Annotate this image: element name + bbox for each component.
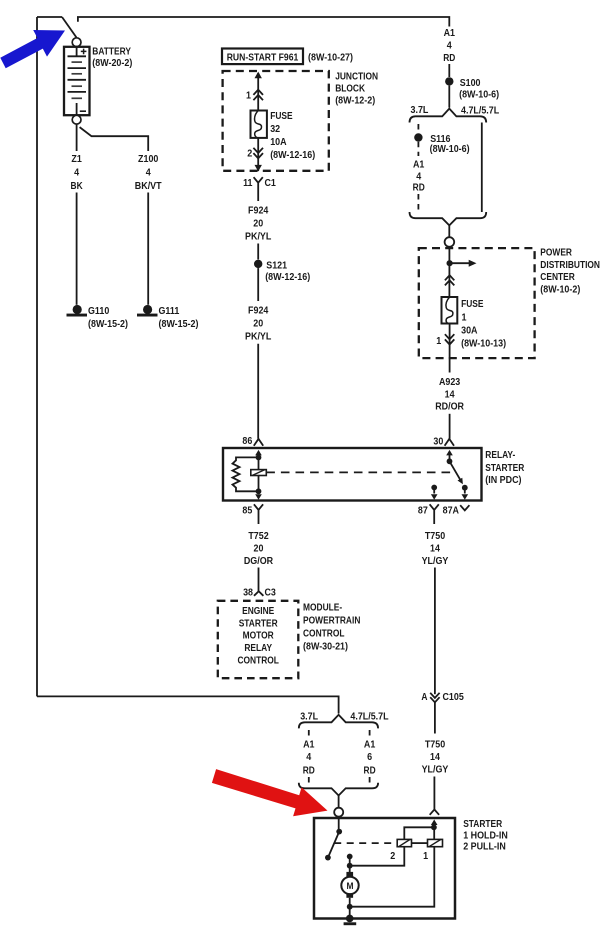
svg-text:DG/OR: DG/OR [244,555,274,567]
relay resistor branch [233,457,259,491]
relay switch blade arrowhead [458,478,463,485]
label 4.7L/5.7L top split [461,105,500,117]
label wire F924 20 PK/YL lower [245,305,272,343]
fuse F1 body [442,297,458,324]
svg-text:4.7L/5.7L: 4.7L/5.7L [461,105,500,117]
svg-text:11: 11 [243,177,253,189]
wire Z1 from battery negative [76,124,78,151]
svg-text:RD: RD [413,182,425,194]
svg-text:4: 4 [447,40,452,52]
wire C1 to F924 label [257,195,259,202]
starter box [314,818,455,919]
engine split brace upper [410,109,487,123]
engine merge brace upper [410,212,487,225]
fuse F32 body [251,111,267,138]
label wire F924 20 PK/YL upper [245,205,272,243]
junction block dashed box [223,71,329,171]
svg-text:F924: F924 [248,305,268,317]
svg-text:A1: A1 [303,739,315,751]
wire top-left horizontal from left vertical to battery diagonal [37,16,62,18]
starter merge brace [299,783,378,796]
svg-text:20: 20 [254,542,264,554]
label connector C1 [265,177,277,189]
svg-text:(8W-30-21): (8W-30-21) [303,640,348,652]
label pin 86 [242,435,252,447]
svg-text:FUSE: FUSE [461,298,483,310]
pin 1 label PDC [436,335,441,347]
relay switch feed wire [449,452,451,462]
wire pin 87 to T750 label [433,518,435,525]
svg-text:A: A [421,691,427,703]
svg-text:(8W-12-16): (8W-12-16) [265,271,310,283]
arrowhead down at junction block bottom border [255,165,262,172]
PDC double chevron connector up [445,275,454,285]
svg-text:1: 1 [436,335,441,347]
pin 87A chevron symbol [460,505,469,510]
pin 1 double chevron connector [253,90,263,101]
battery label [92,45,132,69]
starter solenoid feed male connector symbol [430,810,439,815]
svg-text:Z100: Z100 [138,153,158,165]
label fuse 1 30A [461,298,506,349]
svg-text:(8W-10-6): (8W-10-6) [430,143,470,155]
wire 3.7L dashed branch bottom lower [308,777,310,783]
wire pin 85 to T752 label [258,518,260,525]
connector C1 pin 11 fork symbol [254,177,263,194]
PDC pin 1 double chevron connector down [445,334,454,344]
svg-text:4: 4 [146,166,151,178]
battery plate long 2 [68,67,87,69]
battery plate long 3 [68,79,87,81]
starter feed connector circle [334,808,343,817]
pin 2 double chevron connector [253,148,263,159]
label pin 85 [242,505,252,517]
ground G111 symbol [137,305,158,317]
wire T750 lower to starter feed [433,777,435,810]
svg-text:S100: S100 [460,77,481,89]
svg-text:(8W-10-2): (8W-10-2) [540,284,580,296]
svg-text:(8W-15-2): (8W-15-2) [88,318,128,330]
svg-text:RD/OR: RD/OR [435,400,464,412]
starter ground junction dot on case [346,915,354,923]
relay switch blade [450,461,462,481]
wire F924 upper to splice S121 [257,244,259,260]
svg-text:RUN-START F961: RUN-START F961 [227,51,299,63]
label connector C3 [265,587,277,599]
svg-text:4.7L/5.7L: 4.7L/5.7L [350,711,389,723]
fuse F1 element curve [446,297,453,324]
PDC internal bus arrow right [450,260,477,267]
wire coil 2 return to motor branch [350,847,405,866]
svg-text:(8W-10-13): (8W-10-13) [461,338,506,350]
svg-text:(8W-10-27): (8W-10-27) [308,51,353,63]
label wire A1 4 RD top [443,27,455,64]
battery plate short 1 [72,61,83,63]
svg-text:2: 2 [390,850,395,862]
svg-text:FUSE: FUSE [270,110,292,122]
svg-text:ENGINE: ENGINE [242,605,274,617]
svg-text:87A: 87A [443,505,460,517]
wire top horizontal feed to right branch [78,17,449,27]
svg-text:STARTER: STARTER [463,818,502,830]
hold-in coil 1 box [428,839,443,846]
label pin 87A [443,505,460,517]
relay coil box [251,470,266,476]
svg-text:RELAY-: RELAY- [485,449,515,461]
starter solenoid feed wire into box [433,822,435,839]
PDC internal junction dot [447,260,453,266]
run-start F961 label box [222,49,303,65]
label fuse 32 10A [270,110,315,161]
svg-text:A923: A923 [439,376,460,388]
starter case ground bar [344,922,357,925]
label coil 1 [423,850,428,862]
starter motor top terminal [346,872,353,877]
svg-text:3.7L: 3.7L [411,104,429,116]
red callout arrow pointing at starter connector [212,769,328,816]
wire splice S121 to F924 label lower [257,268,259,301]
label wire A923 14 RD/OR [435,376,464,412]
svg-text:A1: A1 [413,159,425,171]
starter solenoid feed junction dot [431,824,437,830]
svg-text:14: 14 [430,751,440,763]
starter split brace [299,715,378,729]
starter dashed control line [334,842,397,844]
splice S121 [254,260,262,268]
wire 3.7L dashed lower segment [417,194,419,212]
wire 3.7L dashed branch upper segment [417,124,419,133]
svg-text:BK: BK [71,180,83,192]
svg-text:C105: C105 [443,691,464,703]
relay coil top junction dot [256,455,262,461]
svg-text:BK/VT: BK/VT [135,180,162,192]
starter motor M1 [341,877,358,894]
svg-text:RELAY: RELAY [244,642,272,654]
svg-text:M: M [347,881,354,892]
wire 4.7L dashed branch bottom lower [369,777,371,783]
svg-text:1: 1 [246,90,251,102]
svg-text:(8W-20-2): (8W-20-2) [92,57,132,69]
label wire A1 4 RD bottom branch [303,739,315,777]
battery minus sign [80,110,86,112]
svg-text:30: 30 [433,436,443,448]
label starter hold-in pull-in [463,818,508,853]
svg-text:RD: RD [364,764,376,776]
arrowhead up at relay pin 30 [446,450,453,456]
label (8W-10-27) [308,51,353,63]
svg-text:STARTER: STARTER [239,617,278,629]
label wire Z100 4 BK/VT [135,153,162,192]
wire diagonal into battery positive terminal [62,17,76,37]
wire T750 to connector C105 [434,568,436,695]
wire C105 to T750 lower label [434,702,436,733]
svg-text:PK/YL: PK/YL [245,331,272,343]
wire motor to ground [349,898,351,919]
relay contact 87 dot [431,485,437,491]
svg-text:A1: A1 [364,739,376,751]
pin 30 male connector symbol [445,439,454,446]
relay contact 87A dot [462,485,468,491]
svg-text:POWERTRAIN: POWERTRAIN [303,614,360,626]
label 3.7L bottom split [300,711,318,723]
wire T752 to connector C3 [258,568,260,592]
battery plate short 2 [72,73,83,75]
svg-text:RD: RD [443,52,455,64]
label splice S116 [430,133,470,155]
pin 86 male connector symbol [254,439,263,446]
svg-text:PK/YL: PK/YL [245,231,272,243]
pin 85 female fork symbol [254,504,263,517]
label relay-starter [485,449,524,486]
svg-text:(8W-12-2): (8W-12-2) [335,94,375,106]
pin 87 female fork symbol [430,504,439,517]
ground G110 symbol [67,305,88,317]
label pin A [421,691,427,703]
svg-text:32: 32 [270,123,280,135]
fuse F32 element curve [255,111,262,139]
svg-text:CENTER: CENTER [540,271,575,283]
svg-text:C1: C1 [265,177,277,189]
wire 3.7L dashed branch bottom upper [308,730,310,739]
arrowhead up at junction block top border [255,72,262,79]
wire Z1 to ground G110 [76,193,78,305]
pin 1 label junction block [246,90,251,102]
svg-text:(IN PDC): (IN PDC) [485,474,521,486]
battery negative terminal circle [72,115,81,124]
relay control dashed line [266,471,451,473]
svg-text:RD: RD [303,764,315,776]
wire merge to starter connector [338,796,340,808]
arrowhead up at starter solenoid feed [431,820,438,826]
svg-text:S121: S121 [266,259,287,271]
svg-text:2 PULL-IN: 2 PULL-IN [463,841,506,853]
wire relay 87 dot to pin [433,488,435,494]
relay coil feed wire pin86 to pin85 [258,452,260,495]
battery plate short 3 [72,85,83,87]
starter switch blade tip dot [325,855,331,861]
connector C3 pin 38 male symbol [254,591,263,596]
svg-text:MODULE-: MODULE- [303,602,343,614]
svg-text:38: 38 [243,587,253,599]
arrowhead down at relay pin 87 [431,494,438,500]
svg-text:DISTRIBUTION: DISTRIBUTION [540,259,600,271]
svg-text:20: 20 [253,318,263,330]
wire Z100 diagonal from battery negative [80,127,149,151]
wire 3.7L dashed below S116 [417,142,419,156]
relay switch pivot dot [447,458,453,464]
label power distribution center [540,246,600,295]
starter motor branch top dot [347,854,353,860]
svg-text:(8W-12-16): (8W-12-16) [270,149,315,161]
svg-text:BATTERY: BATTERY [92,45,131,57]
wire coil 1 return to ground bus [350,847,435,907]
svg-text:YL/GY: YL/GY [422,763,449,775]
svg-text:T750: T750 [425,739,445,751]
svg-text:4: 4 [74,166,79,178]
battery B1 body [64,47,90,115]
pull-in coil 2 box [397,839,411,846]
label pin 87 [418,505,428,517]
starter motor bottom terminal [346,894,353,898]
wire fuse 1 output [449,324,451,373]
starter switch pivot dot [336,829,342,835]
wire fuse 32 output [257,138,259,171]
relay coil bottom junction dot [256,488,262,494]
wire between coil 2 and coil 1 [412,842,428,844]
wire bottom horizontal feed to starter split [37,696,339,713]
label engine starter motor relay control [237,605,279,667]
svg-text:4: 4 [306,751,311,763]
relay-starter box [223,448,482,501]
wire splice S100 to engine split [448,86,450,108]
wire PDC connector to junction dot [448,247,450,297]
label 4.7L/5.7L bottom split [350,711,389,723]
svg-text:BLOCK: BLOCK [335,82,365,94]
label splice S121 [265,259,310,283]
power distribution center dashed box [419,248,535,358]
battery plate long 1 [68,55,87,57]
connector C105 double chevron symbol [430,693,439,703]
label wire Z1 4 BK [71,153,83,192]
svg-text:10A: 10A [270,136,287,148]
label module powertrain control [303,602,360,653]
label ground G110 [88,305,128,330]
svg-text:CONTROL: CONTROL [303,627,345,639]
label coil 2 [390,850,395,862]
wire pull-in coil top connection [404,827,434,839]
arrowhead down at relay pin 85 [255,494,262,500]
label pin 30 [433,436,443,448]
label pin 11 [243,177,253,189]
svg-text:STARTER: STARTER [485,462,524,474]
wire left vertical main feed (battery to bottom split) [36,17,38,696]
label wire A1 4 RD on 3.7L branch [413,159,425,194]
label wire A1 6 RD bottom branch [364,739,376,777]
svg-text:1: 1 [462,311,467,323]
wire motor branch [349,857,351,873]
svg-text:G110: G110 [88,305,109,317]
svg-text:6: 6 [367,751,372,763]
label splice S100 [459,77,499,101]
wire 4.7L dashed branch bottom upper [369,730,371,739]
svg-text:T750: T750 [425,530,445,542]
battery plate short 4 [72,97,83,99]
splice S116 [414,133,422,141]
svg-text:2: 2 [247,148,252,160]
battery plus sign [81,49,87,55]
svg-text:14: 14 [430,542,440,554]
svg-text:JUNCTION: JUNCTION [335,70,378,82]
wire A1 to splice S100 [448,64,450,77]
svg-text:A1: A1 [444,27,456,39]
svg-text:85: 85 [242,505,252,517]
wire relay 87A dot to pin [464,488,466,494]
label wire T752 20 DG/OR [244,530,274,567]
motor branch junction dot [347,863,353,869]
wire merge to PDC connector [448,225,450,237]
label 3.7L top split [411,104,429,116]
svg-text:1: 1 [423,850,428,862]
label connector C105 [443,691,464,703]
wire junction block internal feed [257,73,259,111]
wire starter feed into box [338,817,340,832]
svg-text:G111: G111 [159,305,180,317]
svg-text:3.7L: 3.7L [300,711,318,723]
battery internal stub from positive terminal [76,47,78,57]
arrowhead down at relay pin 87A [462,494,469,500]
wire F924 lower to relay pin 86 [257,344,259,439]
wire 4.7L/5.7L solid branch [481,123,483,213]
svg-text:(8W-15-2): (8W-15-2) [159,318,199,330]
module powertrain control dashed box [218,601,298,678]
arrowhead up at relay pin 86 [255,450,262,456]
battery positive terminal circle [72,38,81,47]
svg-text:F924: F924 [248,205,268,217]
svg-text:(8W-10-6): (8W-10-6) [459,88,499,100]
splice S100 [445,77,453,85]
battery plate long 4 [68,91,87,93]
pin 2 label junction block [247,148,252,160]
svg-text:Z1: Z1 [71,153,82,165]
svg-text:20: 20 [253,218,263,230]
starter switch blade [328,832,339,858]
svg-text:C3: C3 [265,587,277,599]
wire A923 to relay pin 30 [449,414,451,439]
blue callout arrow pointing at battery [0,30,65,68]
label ground G111 [159,305,199,330]
svg-text:CONTROL: CONTROL [237,655,279,667]
svg-text:30A: 30A [461,325,478,337]
label pin 38 [243,587,253,599]
svg-text:T752: T752 [248,530,268,542]
svg-text:YL/GY: YL/GY [422,555,449,567]
svg-text:MOTOR: MOTOR [243,630,274,642]
svg-text:86: 86 [242,435,252,447]
PDC feed connector circle [445,237,455,247]
svg-text:87: 87 [418,505,428,517]
motor ground junction dot [347,904,353,910]
wire Z100 to ground G111 [147,193,149,305]
label junction block [335,70,378,106]
label wire T750 14 YL/GY upper [422,530,449,567]
svg-text:POWER: POWER [540,246,572,258]
label wire T750 14 YL/GY lower [422,739,449,776]
battery internal stub to negative terminal [76,103,78,115]
svg-text:14: 14 [445,388,455,400]
